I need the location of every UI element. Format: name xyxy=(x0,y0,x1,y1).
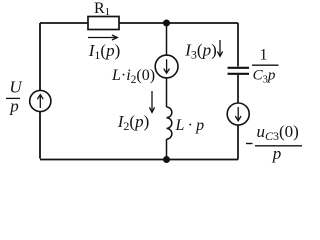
label -uC3(0)/p xyxy=(246,122,302,163)
wire bottom xyxy=(40,159,238,161)
arrow I1(p) xyxy=(88,35,117,40)
svg-text:R1: R1 xyxy=(94,0,110,18)
inductor L·p xyxy=(167,107,172,139)
wire right branch xyxy=(237,23,239,160)
svg-text:I3(p): I3(p) xyxy=(184,41,217,62)
node bottom junction xyxy=(163,156,170,163)
source U/p xyxy=(30,90,51,111)
resistor R1 xyxy=(88,17,119,30)
arrow I2(p) xyxy=(149,91,154,112)
svg-text:I2(p): I2(p) xyxy=(117,112,150,133)
svg-text:U: U xyxy=(9,78,23,97)
node top junction xyxy=(163,20,170,27)
label 1/(C3 p) xyxy=(252,47,279,86)
svg-text:1: 1 xyxy=(260,47,268,64)
wire top left segment xyxy=(40,22,88,24)
svg-text:p: p xyxy=(9,97,19,116)
capacitor C3 xyxy=(228,68,250,74)
svg-text:C3p: C3p xyxy=(253,68,276,86)
svg-text:p: p xyxy=(272,144,282,163)
svg-text:I1(p): I1(p) xyxy=(88,41,121,62)
wire middle branch xyxy=(166,23,168,160)
svg-text:uC3(0): uC3(0) xyxy=(257,122,299,143)
arrow I3(p) xyxy=(217,40,222,56)
label U/p xyxy=(6,78,23,116)
wire left branch xyxy=(39,23,41,159)
wire top right segment xyxy=(119,22,238,24)
source L·i2(0) xyxy=(155,55,178,78)
svg-text:L · p: L · p xyxy=(175,117,205,134)
source -uC3(0)/p xyxy=(227,103,249,125)
svg-text:L·i2(0): L·i2(0) xyxy=(111,67,155,86)
